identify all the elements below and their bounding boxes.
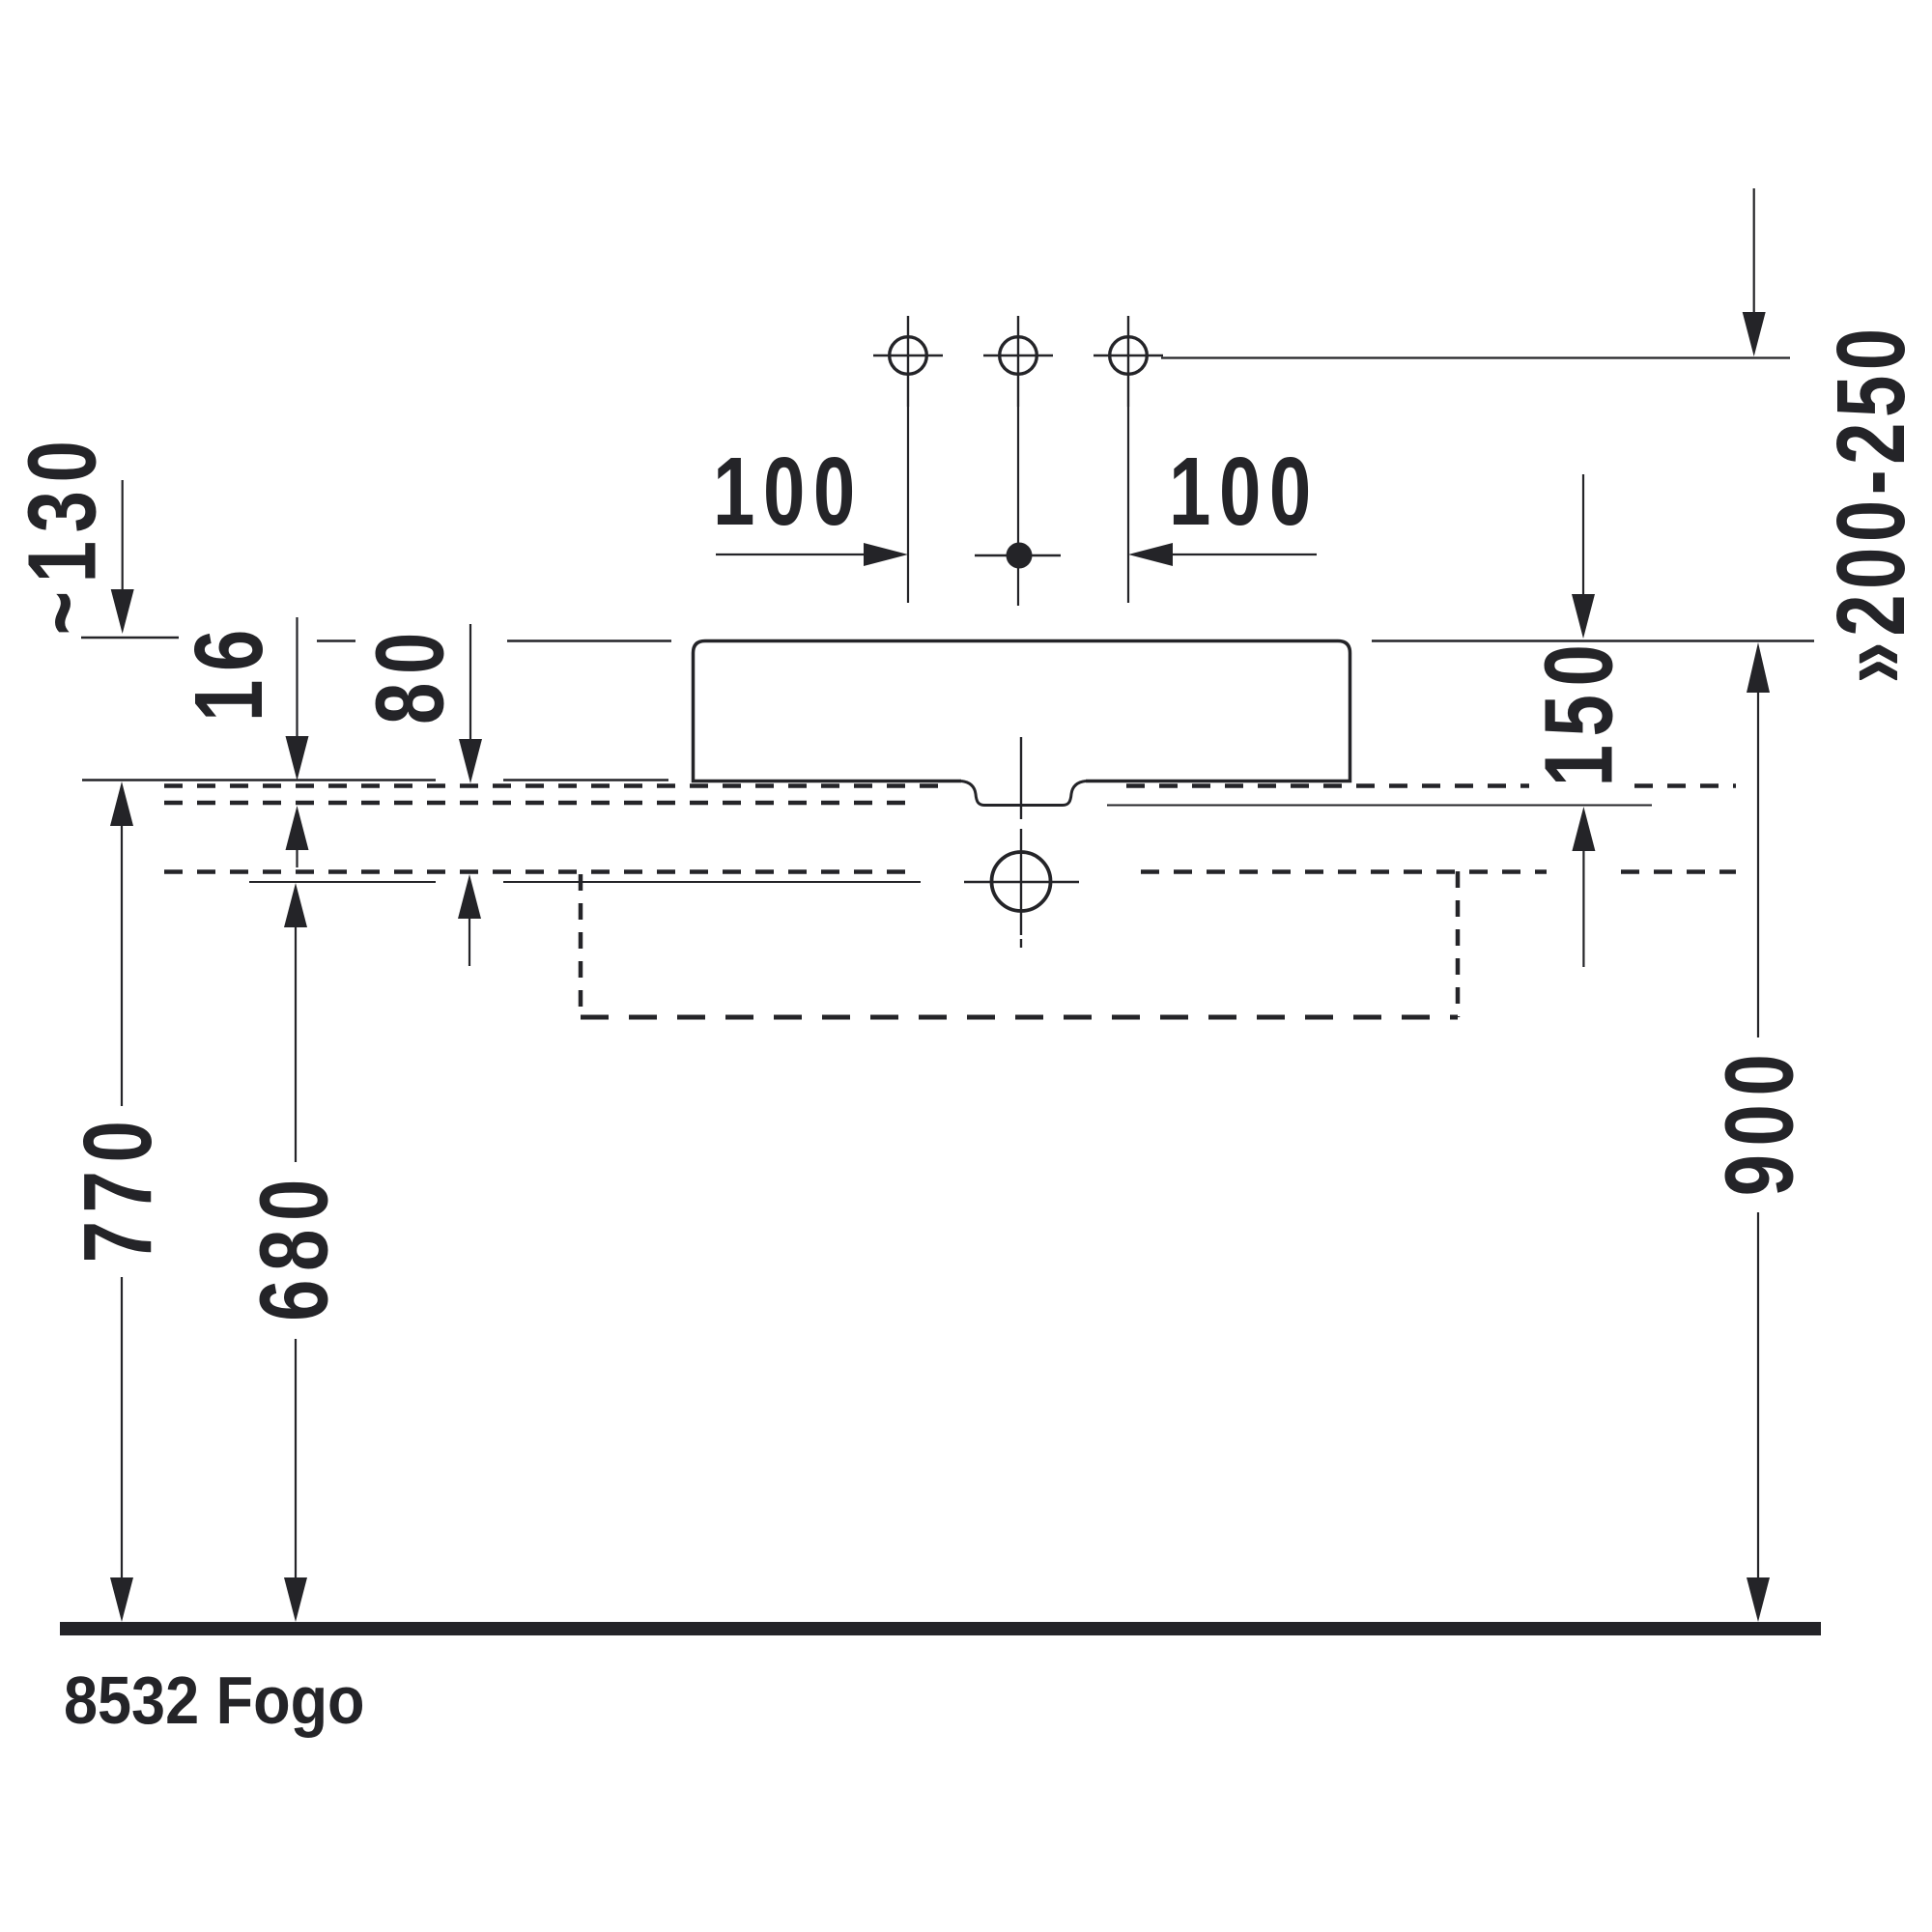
dimension 680 lower arrowhead [284, 1577, 307, 1622]
washbasin body outline [694, 641, 1350, 781]
svg-text:900: 900 [1706, 1046, 1814, 1197]
dimension 680 upper line [295, 923, 297, 1162]
dimension 680 upper arrowhead [284, 883, 307, 927]
dimension 150 upper arrowhead [1572, 594, 1595, 639]
svg-text:100: 100 [713, 439, 864, 547]
lower solid line right segment [503, 881, 921, 883]
dimension 770 upper line [121, 822, 123, 1106]
drain outlet circle [992, 852, 1051, 911]
faucet hole circle 3 [1110, 337, 1148, 375]
spout height dimension line [1753, 188, 1755, 316]
floor line [60, 1622, 1821, 1635]
drain centerline upper segment [1020, 737, 1022, 819]
center dot horizontal tick [975, 554, 1061, 556]
dimension 150 lower arrowhead [1572, 807, 1595, 851]
rim reference line left of washbasin [507, 639, 671, 642]
lower solid line left segment [249, 881, 436, 883]
washbasin drain boss recess [961, 781, 1086, 806]
svg-text:~130: ~130 [9, 433, 117, 636]
dimension 150 upper line [1582, 474, 1584, 602]
faucet hole 3 crosshair horizontal [1094, 355, 1163, 356]
dimension 16 upper line [296, 617, 298, 744]
dimension 150 lower line [1582, 847, 1584, 967]
svg-text:100: 100 [1169, 439, 1320, 547]
faucet reference line to spout arrow [1161, 356, 1790, 358]
dimension 16 lower line [296, 846, 298, 867]
svg-text:8532 Fogo: 8532 Fogo [64, 1663, 365, 1739]
dimension 80 lower line [469, 915, 470, 966]
siphon cutout dashed left edge [579, 874, 583, 1017]
drain crosshair horizontal [964, 881, 1079, 883]
dimension 80 upper arrowhead [459, 739, 482, 783]
dimension 80 lower arrowhead [458, 874, 481, 919]
dimension line 100 right [1169, 554, 1317, 555]
dimension 680 lower line [295, 1339, 297, 1584]
drain boss underside line [1107, 805, 1652, 807]
arrowhead 100 left [864, 543, 908, 566]
rim reference line right of washbasin [1372, 639, 1814, 642]
console board top dashed line [164, 783, 1736, 788]
arrowhead 100 right [1128, 543, 1173, 566]
faucet hole 2 crosshair horizontal [983, 355, 1053, 356]
faucet hole circle 1 [890, 337, 927, 375]
extension line below hole 1 [907, 407, 909, 603]
console top line second segment [503, 779, 668, 781]
dimension 770 upper arrowhead [110, 781, 133, 826]
dimension 16 upper arrowhead [286, 736, 309, 781]
svg-text:»200-250: »200-250 [1818, 323, 1926, 683]
lower furniture dashed line [164, 869, 1736, 874]
dimension 770 lower arrowhead [110, 1577, 133, 1622]
faucet hole 1 crosshair vertical [907, 316, 909, 407]
dimension 80 upper line [469, 624, 471, 747]
dimension 900 upper line [1757, 683, 1759, 1037]
spout height arrowhead [1743, 312, 1766, 356]
drain centerline lower dash [1020, 939, 1022, 948]
rim reference line between labels 16 and 80 [317, 639, 355, 642]
svg-text:150: 150 [1525, 637, 1634, 787]
dimension line 100 left [716, 554, 867, 555]
dimension 16 lower arrowhead [286, 806, 309, 850]
faucet hole 1 crosshair horizontal [873, 355, 943, 356]
extension line below hole 3 [1127, 407, 1129, 603]
centerline below hole 2 [1017, 407, 1019, 606]
dimension 130 line [122, 480, 124, 599]
dimension 900 lower line [1757, 1212, 1759, 1584]
drain centerline middle segment [1020, 829, 1022, 935]
dimension 770 lower line [121, 1277, 123, 1584]
center reference dot [1007, 543, 1033, 569]
svg-text:680: 680 [241, 1171, 349, 1321]
faucet hole 2 crosshair vertical [1017, 316, 1019, 407]
console top line left segment [82, 779, 436, 781]
siphon cutout dashed bottom edge [581, 1015, 1458, 1020]
rim reference line left of label 16 [81, 637, 179, 639]
svg-text:770: 770 [65, 1113, 173, 1264]
dimension 130 arrowhead [111, 589, 134, 634]
faucet hole circle 2 [1000, 337, 1037, 375]
siphon cutout dashed right edge [1456, 871, 1461, 1017]
dimension 900 upper arrowhead [1747, 642, 1770, 693]
faucet hole 3 crosshair vertical [1127, 316, 1129, 407]
dimension 900 lower arrowhead [1747, 1577, 1770, 1622]
svg-text:80: 80 [356, 624, 465, 724]
svg-text:16: 16 [176, 621, 284, 722]
console board bottom dashed line [164, 801, 920, 806]
